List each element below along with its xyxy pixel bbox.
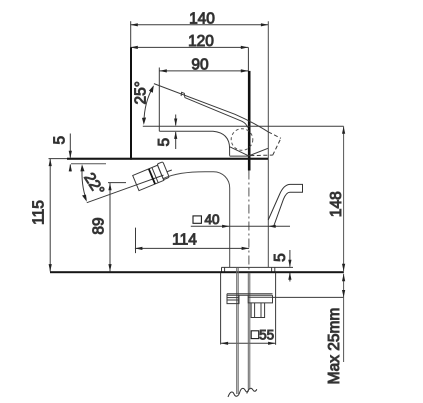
head dashed bottom edge [250, 154, 272, 157]
spout center thick line [248, 71, 251, 171]
supply pipes [237, 267, 250, 394]
svg-text:89: 89 [91, 217, 108, 234]
extension line right 120 [247, 47, 249, 71]
extension line left 140/120 [130, 21, 132, 47]
faucet back thick edge [130, 48, 132, 160]
dimension square40 [191, 212, 290, 228]
dimension 140 [130, 10, 268, 27]
head underside V left [230, 147, 249, 156]
cartridge dashed circle [231, 129, 253, 151]
handle 22deg group [132, 162, 169, 191]
svg-text:55: 55 [259, 328, 274, 343]
spout outlet face [230, 155, 249, 157]
dimension 114 [135, 228, 249, 254]
dimension 120 [130, 33, 248, 50]
svg-text:114: 114 [172, 232, 197, 249]
clamping flange [227, 294, 273, 304]
extension line right 140 / column right edge [267, 21, 269, 267]
pop-up rod handle [268, 184, 302, 227]
lever notch [181, 92, 185, 97]
svg-text:140: 140 [189, 10, 215, 27]
dimension Max 25mm [326, 274, 345, 385]
svg-text:25°: 25° [132, 81, 149, 104]
angle dimension 25 deg arc [132, 81, 154, 125]
svg-text:5: 5 [52, 136, 69, 145]
svg-text:5: 5 [272, 253, 289, 262]
lower deck thick line [50, 271, 344, 273]
dimension 90 [159, 57, 248, 74]
centerline dash-dot [248, 171, 250, 273]
horizontal reference line A [143, 125, 344, 127]
extension line left 90 [158, 68, 160, 132]
22deg lower ray [87, 175, 164, 203]
head right edge C-D [273, 138, 281, 155]
upper deck thick line [67, 158, 268, 160]
dimension 5 body [156, 115, 177, 150]
head underside V right [249, 148, 268, 156]
svg-text:Max 25mm: Max 25mm [326, 308, 343, 385]
dimension 148 [328, 126, 345, 271]
svg-text:115: 115 [30, 200, 47, 225]
upper deck left thin extension [49, 158, 68, 160]
under-deck body box square55 [221, 273, 276, 345]
upper sub plate line [71, 163, 106, 165]
lever bottom edge [185, 98, 248, 128]
svg-text:40: 40 [204, 212, 219, 227]
body top line [159, 131, 229, 156]
pipe break squiggle right [247, 388, 257, 393]
flange reference line to Max dim [273, 296, 344, 298]
svg-text:5: 5 [156, 138, 173, 147]
base plate on lower deck [222, 267, 294, 271]
dimension 89 [91, 183, 127, 272]
neck outline from handle to column [164, 172, 230, 268]
handle axis dash [167, 170, 172, 172]
dimension 5 deck [52, 134, 72, 172]
svg-text:148: 148 [328, 191, 345, 217]
mounting nut [251, 303, 265, 318]
pipe break squiggle left [228, 388, 249, 397]
lever handle 25deg top edge [154, 84, 268, 132]
svg-text:90: 90 [191, 57, 209, 74]
dimension 5 plate right [272, 250, 292, 282]
svg-text:120: 120 [188, 33, 214, 50]
lever tip hidden dashed edge [268, 132, 281, 138]
dimension 115 [30, 159, 51, 272]
angle dimension 22 deg arc [80, 164, 107, 202]
